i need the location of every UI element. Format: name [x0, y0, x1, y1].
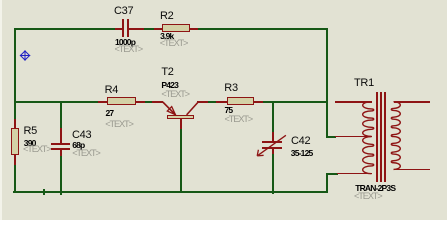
- wire middle rail right part: [197, 101, 328, 103]
- resistor R3 leads: [216, 101, 227, 103]
- resistor R5 body: [11, 128, 20, 155]
- wire bottom rail: [13, 191, 329, 193]
- capacitor C37 leads: [115, 28, 123, 30]
- resistor R3 labels: [224, 83, 237, 94]
- origin marker (blue diamond crosshair): [20, 50, 31, 61]
- transformer TR1 core: [376, 92, 378, 182]
- transformer TR1 primary mid lead: [335, 136, 372, 138]
- transformer TR1 secondary top lead: [394, 101, 430, 103]
- resistor R4 body: [107, 97, 136, 105]
- resistor R2 labels: [160, 11, 173, 22]
- transformer TR1 primary bottom lead: [337, 173, 372, 175]
- wire C43 branch vertical: [60, 101, 62, 195]
- transistor T2 body bar: [167, 115, 193, 119]
- wire stub to transformer mid lead: [326, 136, 336, 138]
- transformer TR1 secondary bottom lead: [394, 169, 430, 171]
- transistor T2 emitter arrow: [167, 107, 175, 115]
- transformer TR1 primary top lead: [335, 101, 372, 103]
- light page edge strip: [0, 0, 2, 220]
- variable capacitor C42 plates: [262, 141, 282, 143]
- wire T2 base vertical: [180, 128, 182, 193]
- capacitor C43 leads: [60, 128, 62, 143]
- wire top rail: [14, 28, 328, 30]
- wire middle rail left part: [14, 101, 163, 103]
- resistor R4 leads: [98, 101, 108, 103]
- wire right vertical lower: [326, 173, 328, 193]
- resistor R2 leads: [154, 28, 163, 30]
- transistor T2 labels: [161, 67, 173, 78]
- resistor R4 labels: [105, 85, 118, 96]
- junction tick on bottom rail: [43, 189, 45, 195]
- resistor R5 leads: [14, 119, 16, 129]
- capacitor C43 labels: [72, 130, 91, 141]
- transistor T2 collector diagonal: [187, 102, 199, 115]
- resistor R5 labels: [24, 126, 37, 137]
- transformer TR1 secondary winding: [391, 102, 400, 170]
- wire left vertical: [14, 28, 16, 193]
- resistor R3 body: [227, 97, 254, 105]
- wire right vertical upper: [326, 28, 328, 138]
- variable capacitor C42 leads: [272, 132, 274, 142]
- transformer TR1 primary winding 1: [363, 102, 374, 137]
- wire C42 branch vertical: [272, 101, 274, 194]
- capacitor C37 plates: [122, 19, 124, 37]
- capacitor C37 labels: [114, 6, 133, 17]
- transistor T2 base lead: [180, 119, 182, 130]
- transistor T2 emitter diagonal: [163, 102, 176, 115]
- capacitor C43 plates: [51, 143, 70, 145]
- variable capacitor C42 labels: [291, 136, 310, 147]
- transformer TR1 labels: [354, 78, 374, 89]
- variable capacitor C42 arrow: [257, 135, 286, 156]
- wire stub to transformer bottom lead: [326, 173, 338, 175]
- transistor T2 collector horizontal: [197, 101, 208, 103]
- transistor T2 emitter horizontal: [152, 101, 163, 103]
- transformer TR1 primary winding 2: [363, 137, 374, 174]
- resistor R2 body: [162, 24, 190, 32]
